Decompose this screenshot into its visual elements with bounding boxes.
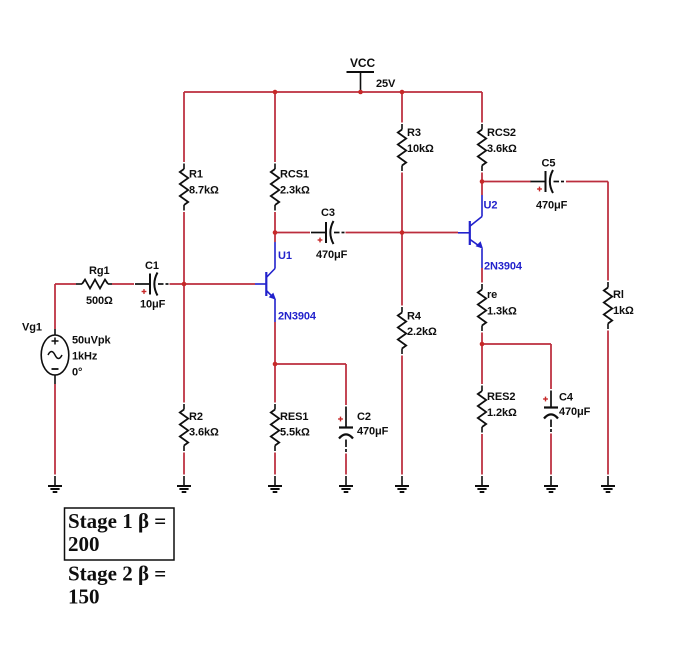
svg-text:1kHz: 1kHz bbox=[72, 351, 98, 363]
svg-text:R4: R4 bbox=[407, 310, 422, 322]
svg-text:Stage 1 β =: Stage 1 β = bbox=[68, 509, 166, 533]
svg-text:8.7kΩ: 8.7kΩ bbox=[189, 184, 219, 196]
svg-text:Stage 2 β =: Stage 2 β = bbox=[68, 562, 166, 586]
svg-text:R3: R3 bbox=[407, 127, 421, 139]
svg-text:10kΩ: 10kΩ bbox=[407, 143, 434, 155]
svg-text:2N3904: 2N3904 bbox=[484, 261, 523, 273]
svg-text:10μF: 10μF bbox=[140, 299, 166, 311]
svg-text:RES2: RES2 bbox=[487, 391, 515, 403]
svg-text:U1: U1 bbox=[278, 250, 292, 262]
svg-text:re: re bbox=[487, 289, 497, 301]
svg-text:470μF: 470μF bbox=[357, 426, 389, 438]
svg-text:RCS2: RCS2 bbox=[487, 127, 516, 139]
svg-text:3.6kΩ: 3.6kΩ bbox=[487, 143, 517, 155]
svg-text:2.3kΩ: 2.3kΩ bbox=[280, 184, 310, 196]
svg-text:1kΩ: 1kΩ bbox=[613, 305, 634, 317]
svg-text:Rl: Rl bbox=[613, 289, 624, 301]
svg-text:C2: C2 bbox=[357, 411, 371, 423]
svg-text:150: 150 bbox=[68, 585, 100, 609]
svg-text:R1: R1 bbox=[189, 168, 203, 180]
svg-text:2N3904: 2N3904 bbox=[278, 311, 317, 323]
svg-text:RCS1: RCS1 bbox=[280, 168, 309, 180]
svg-text:R2: R2 bbox=[189, 411, 203, 423]
svg-text:470μF: 470μF bbox=[559, 406, 591, 418]
svg-text:C5: C5 bbox=[542, 158, 556, 170]
svg-text:470μF: 470μF bbox=[536, 200, 568, 212]
svg-text:Rg1: Rg1 bbox=[89, 265, 109, 277]
svg-text:470μF: 470μF bbox=[316, 249, 348, 261]
svg-text:50uVpk: 50uVpk bbox=[72, 335, 112, 347]
svg-text:VCC: VCC bbox=[350, 56, 375, 70]
svg-text:500Ω: 500Ω bbox=[86, 295, 113, 307]
svg-text:1.2kΩ: 1.2kΩ bbox=[487, 407, 517, 419]
svg-text:5.5kΩ: 5.5kΩ bbox=[280, 427, 310, 439]
svg-text:C3: C3 bbox=[321, 207, 335, 219]
svg-text:C4: C4 bbox=[559, 391, 574, 403]
svg-text:Vg1: Vg1 bbox=[22, 322, 42, 334]
svg-text:200: 200 bbox=[68, 532, 100, 556]
svg-text:1.3kΩ: 1.3kΩ bbox=[487, 305, 517, 317]
svg-text:RES1: RES1 bbox=[280, 411, 308, 423]
svg-text:25V: 25V bbox=[376, 78, 396, 90]
svg-text:3.6kΩ: 3.6kΩ bbox=[189, 427, 219, 439]
svg-text:C1: C1 bbox=[145, 260, 159, 272]
svg-text:0°: 0° bbox=[72, 367, 82, 379]
svg-text:U2: U2 bbox=[484, 200, 498, 212]
svg-text:2.2kΩ: 2.2kΩ bbox=[407, 326, 437, 338]
